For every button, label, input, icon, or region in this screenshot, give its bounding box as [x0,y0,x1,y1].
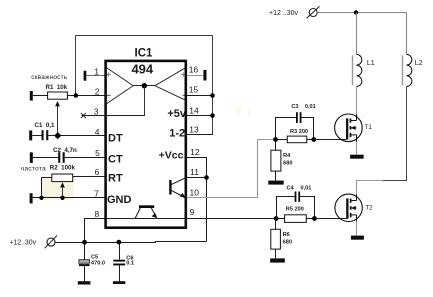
terminal bottom supply [45,236,57,249]
svg-text:494: 494 [131,62,153,77]
svg-text:470.0: 470.0 [91,260,105,266]
wire pin14 [187,115,213,117]
faint stain marks [235,108,250,115]
svg-text:4: 4 [95,127,100,137]
svg-text:RT: RT [108,172,123,184]
svg-text:5: 5 [95,148,100,158]
ground below C6 [113,281,125,284]
node amplifier output junction [142,83,147,88]
node C1/R1 wiper junction [54,132,61,139]
svg-text:DT: DT [108,132,123,144]
highlight box around R2 [41,177,74,200]
ground below T2 [351,236,364,240]
svg-text:R2 100k: R2 100k [50,164,76,171]
svg-text:2: 2 [95,87,100,97]
wire pin7 GND line [30,193,106,203]
svg-text:R4: R4 [283,153,291,159]
wire between amplifier outputs [133,85,155,87]
wire pin13 [187,134,213,136]
svg-text:1: 1 [94,66,99,76]
ground below T1 [350,155,364,159]
potentiometer R2 100k [42,164,106,198]
resistor R3 200 [276,129,314,143]
minus mark pin15 input [182,94,187,96]
svg-text:C3: C3 [291,104,298,110]
svg-text:680: 680 [283,239,292,245]
svg-text:12: 12 [190,147,200,157]
svg-text:11: 11 [190,167,199,177]
wire top feedback loop pin2 to pins 15-14-13 rail [76,36,213,135]
svg-text:частота: частота [21,166,46,173]
node pin14 junction [210,113,215,118]
svg-text:L1: L1 [367,60,375,67]
svg-text:R3 200: R3 200 [290,129,308,135]
svg-text:CT: CT [108,153,123,165]
ground below R6 [270,258,285,262]
wire L1 feed [356,13,358,55]
svg-text:6: 6 [95,167,100,177]
svg-text:0,01: 0,01 [301,186,312,192]
svg-text:9: 9 [190,207,195,217]
svg-text:IC1: IC1 [135,48,154,60]
capacitor C4 0,01 [277,186,315,219]
svg-text:16: 16 [189,65,199,75]
MOSFET T1 [335,114,373,142]
label +12 ..30v top [269,10,298,17]
potentiometer R1 10k [30,84,106,136]
ground below R4 [268,181,283,185]
svg-text:15: 15 [189,85,199,95]
capacitor C2 4,7n [30,147,106,163]
svg-text:10: 10 [190,188,200,198]
svg-text:13: 13 [189,124,199,134]
svg-text:14: 14 [189,106,199,116]
node T1 network right junction [311,137,316,142]
node pin2 junction [74,93,79,98]
resistor R4 680 [271,140,293,181]
svg-text:T1: T1 [365,124,373,131]
ground below C5 [78,281,91,284]
wire T1 gate [314,139,346,141]
svg-text:L2: L2 [415,60,423,67]
minus mark pin2 input [106,94,111,96]
node T1 network left junction [273,137,278,142]
svg-text:R1 10k: R1 10k [46,84,68,91]
capacitor C5 470.0 electrolytic [79,242,105,281]
svg-text:+Vcc: +Vcc [159,150,184,162]
node T2 network right junction [312,216,317,221]
pin numbers right [189,65,200,217]
pin16 stub terminal [187,70,207,81]
wire pin3 stub with x mark [81,113,106,118]
svg-text:+12 ..30v: +12 ..30v [269,10,298,17]
svg-text:0,01: 0,01 [305,104,316,110]
svg-text:скважность: скважность [31,74,68,81]
wire feedback to pin3 [106,86,145,116]
resistor R5 200 [276,207,314,223]
svg-text:+12..30v: +12..30v [9,240,36,247]
resistor R6 680 [271,219,292,259]
transistor internal upper (pins 11-10) [169,177,186,198]
svg-text:C1 0,1: C1 0,1 [35,122,56,129]
label частота [21,166,46,173]
op-amp error amplifier 1 (left triangle) [106,67,133,104]
node R2 left leg junction [39,196,43,200]
wire T1 source to ground [356,142,358,155]
svg-text:R5 200: R5 200 [286,207,304,213]
wire L2 feed [406,13,408,55]
node rail C5 junction [82,240,87,245]
node pin11 junction [204,175,209,180]
capacitor C1 0,1 [29,122,105,140]
svg-text:7: 7 [94,189,99,199]
wire pin8 to supply rail [85,219,106,243]
wire T2 gate [315,218,347,220]
inductor L2 [403,54,423,86]
wire L1 to T1 drain [356,87,358,115]
transistor internal lower (pins 8-9) [135,205,157,218]
capacitor C3 0,01 [276,104,316,139]
svg-text:8: 8 [94,209,99,219]
node rail L1 junction [354,10,358,14]
inductor L1 [353,54,375,86]
wire pin15 [187,95,213,97]
wire L2 down to T2 drain [357,87,407,195]
wire T2 source to ground [356,221,358,235]
node rail C6 junction [117,240,122,245]
capacitor C6 0.1 [113,242,134,281]
op-amp error amplifier 2 (right triangle) [155,68,186,100]
wire pin10 gray to T1 network [187,140,276,198]
node pin15 junction [210,93,215,98]
label скважность [31,74,68,81]
wire pin8-pin9 internal line to T2 network [106,218,277,220]
svg-text:C4: C4 [287,186,295,192]
svg-text:3: 3 [94,107,99,117]
plus mark pin16 input [181,72,185,76]
svg-text:R6: R6 [283,232,290,238]
node pin9 line junction [274,216,279,221]
svg-text:C2 4,7n: C2 4,7n [53,147,77,154]
pin1 stub terminal [84,71,106,81]
svg-text:1-2: 1-2 [169,128,185,140]
wire bottom supply rail [55,241,206,243]
MOSFET T2 [335,194,373,221]
label +12..30v bottom [9,240,36,247]
svg-text:680: 680 [283,160,292,166]
pin numbers left [94,66,100,219]
svg-text:GND: GND [107,194,132,206]
IC1 494 box [106,48,187,228]
wire pin11 [187,177,207,179]
node R2 wiper junction [60,196,64,200]
wire pin12 +Vcc to bottom rail [187,158,207,242]
plus mark pin1 input [106,72,110,76]
svg-text:0.1: 0.1 [126,261,134,267]
svg-text:+5v: +5v [167,108,187,120]
terminal top supply [307,6,320,18]
wire top supply rail [317,12,406,14]
svg-text:T2: T2 [365,205,373,212]
